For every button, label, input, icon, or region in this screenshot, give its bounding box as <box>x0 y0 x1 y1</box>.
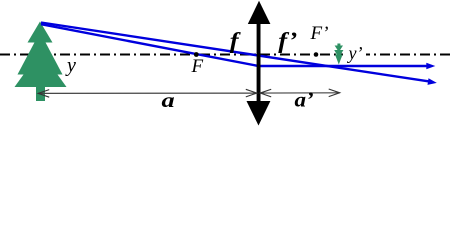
svg-text:a’: a’ <box>295 87 314 111</box>
label y' <box>343 46 366 63</box>
dimension line a (object to lens) <box>38 92 257 94</box>
dimension arrow right of a' (at image) <box>329 89 340 97</box>
dimension arrow left (at object) <box>38 90 49 98</box>
image arrow y' (small inverted tree) <box>334 44 343 65</box>
ray 2 arrowhead <box>426 63 435 70</box>
lens L (converging, double-arrow symbol) <box>247 1 271 126</box>
dimension line a' (lens to image) <box>260 92 340 94</box>
dimension arrow left of a' (at lens) <box>260 89 271 97</box>
svg-text:y: y <box>65 55 76 77</box>
svg-text:f: f <box>230 29 242 54</box>
ray 1 (through lens centre) <box>41 23 430 82</box>
ray 1 arrowhead <box>428 78 437 85</box>
svg-text:F’: F’ <box>310 23 329 44</box>
ray 2 (through focal point F) <box>41 24 427 66</box>
svg-text:f’: f’ <box>278 29 297 54</box>
focal point F' <box>314 52 319 57</box>
optical axis <box>0 54 450 56</box>
object tree (y) <box>15 22 67 102</box>
svg-text:y’: y’ <box>347 43 363 63</box>
dimension arrow right of a (at lens) <box>246 89 257 97</box>
focal point F <box>194 52 199 57</box>
svg-text:a: a <box>162 89 175 112</box>
svg-text:F: F <box>191 56 204 77</box>
